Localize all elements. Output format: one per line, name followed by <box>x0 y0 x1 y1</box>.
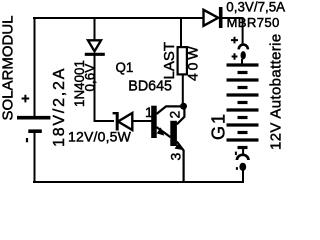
svg-text:BD645: BD645 <box>128 79 172 95</box>
svg-text:MBR750: MBR750 <box>227 15 280 30</box>
svg-text:0,3V/7,5A: 0,3V/7,5A <box>226 0 285 14</box>
svg-text:2: 2 <box>167 111 183 119</box>
svg-text:3: 3 <box>168 153 184 161</box>
svg-text:1: 1 <box>145 104 153 120</box>
svg-text:LAST: LAST <box>161 42 178 80</box>
svg-text:G1: G1 <box>209 112 229 140</box>
svg-text:40W: 40W <box>185 44 201 82</box>
svg-text:12V/0,5W: 12V/0,5W <box>68 129 132 145</box>
svg-text:SOLARMODUL: SOLARMODUL <box>0 15 17 120</box>
svg-text:Q1: Q1 <box>116 60 134 75</box>
svg-text:0,6V: 0,6V <box>83 64 98 92</box>
svg-text:18V/2,2A: 18V/2,2A <box>51 67 68 147</box>
svg-text:12V Autobatterie: 12V Autobatterie <box>268 33 285 150</box>
